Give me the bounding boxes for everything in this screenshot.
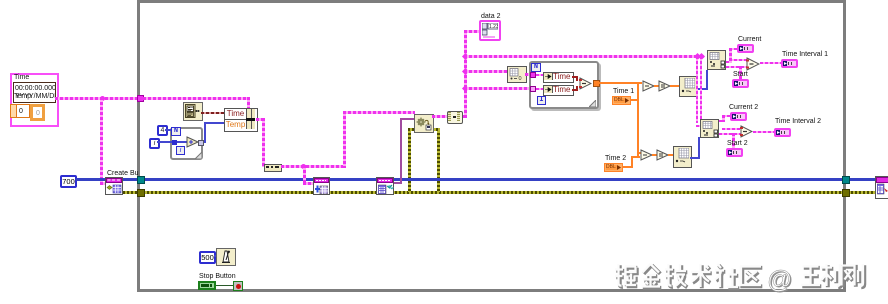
Current indicator — [737, 44, 754, 53]
right edge express VI — [875, 176, 888, 199]
wire into unbundle1 — [536, 74, 543, 76]
Start indicator — [732, 79, 749, 88]
branch y=71 to array-size node — [464, 70, 507, 73]
wire i into loop — [157, 141, 188, 143]
4 constant — [157, 125, 168, 136]
violet wire from VI2 to gear — [394, 182, 402, 184]
Time Interval 1 indicator — [781, 59, 798, 68]
express VI Create Build Table — [105, 177, 123, 195]
svg-text:1.23: 1.23 — [489, 24, 498, 30]
label Stop Button — [199, 273, 236, 281]
pink wire gear to indexer — [432, 115, 447, 118]
blue from node C up to node A — [696, 88, 708, 90]
express VI 2 (Write Meas File) — [376, 177, 394, 195]
vertical up at x=344 — [343, 111, 346, 168]
label Time Interval 1 — [782, 51, 828, 59]
fold corner 2 — [589, 100, 596, 107]
node A (index array group1) — [707, 50, 726, 70]
junction dot — [100, 96, 105, 101]
svg-text:@: @ — [767, 266, 792, 294]
express VI 1 (Build Table) — [313, 177, 330, 195]
label Start 2 — [727, 140, 748, 148]
while loop frame — [137, 0, 846, 292]
wire to condition terminal — [216, 285, 233, 286]
For loop 2 structure — [529, 61, 599, 109]
main pink vertical distribution — [464, 30, 467, 118]
zero box 1 — [16, 104, 30, 118]
i terminal inside — [176, 146, 185, 155]
tunnel teal right — [842, 176, 850, 184]
stub Time1 to vertical — [630, 99, 638, 101]
horizontal to gear node — [343, 111, 415, 114]
vertical B bottom turn — [637, 152, 641, 154]
500 constant — [199, 251, 216, 264]
N terminal — [171, 127, 181, 136]
wire T2 out — [753, 131, 774, 133]
bundle by name node (Time/Temp) — [224, 108, 258, 132]
N terminal 2 — [531, 63, 541, 72]
tunnel square on left border — [172, 140, 177, 145]
branch to triangle upper — [729, 59, 748, 61]
label data 2 — [481, 13, 500, 21]
pink out to vertical — [463, 115, 467, 118]
loop condition terminal — [233, 281, 243, 291]
branch y=88 to For2 tunnel2 — [464, 87, 533, 90]
branch to triangle2 upper — [722, 128, 740, 130]
Time 1 indicator — [612, 96, 631, 105]
node A out2 — [726, 66, 748, 68]
main olive error wire — [123, 191, 875, 194]
Time control (timestamp + cluster) — [10, 73, 59, 127]
wire pink to bundle area — [143, 97, 250, 100]
Start 2 indicator — [726, 148, 743, 157]
blue over olive legs patch — [404, 178, 444, 181]
wire into unbundle2 — [536, 88, 543, 90]
orange out tunnel — [593, 80, 600, 87]
bundle output wire — [256, 118, 265, 121]
gear node (DAQ assistant style) — [414, 114, 434, 133]
blue from node D up to node B — [690, 157, 700, 159]
stop boolean control — [198, 281, 216, 290]
build array small node — [264, 164, 282, 172]
junction dots end of long pink — [694, 53, 701, 60]
label Create Bu — [107, 170, 139, 178]
out tunnel — [198, 140, 204, 146]
increment triangle — [186, 136, 199, 148]
i constant — [149, 138, 160, 149]
Time 2 indicator — [604, 163, 623, 172]
indexer node — [447, 111, 463, 124]
timestamp display box — [13, 82, 56, 103]
node B out1: to Current 2 — [719, 120, 724, 122]
branch y=56 long to right section — [464, 55, 704, 58]
conv triangle 3 — [640, 149, 653, 161]
fold corner — [195, 152, 202, 159]
wire: into create vi — [100, 182, 108, 185]
branch down to express VI 1 — [303, 165, 306, 183]
doubled pink verticals down to node B — [696, 56, 698, 123]
spinner — [10, 104, 17, 118]
tunnel olive right — [842, 189, 850, 197]
wire: branch down to create vi — [100, 97, 103, 183]
comparator triangle group1 — [746, 57, 760, 71]
blue wire into Temp row — [205, 122, 224, 124]
For loop 1 (small structure) — [170, 127, 203, 160]
node B out2 — [719, 133, 741, 135]
orange horizontal from For2 out — [599, 82, 642, 84]
label Start — [733, 71, 748, 79]
dark red timestamp wire — [201, 112, 224, 114]
junction diamonds on vertical — [462, 53, 469, 60]
unbundle Time 2 — [543, 85, 574, 96]
tunnel pink on For2 border 1 — [530, 72, 536, 78]
tunnel (pink) on left border — [137, 95, 144, 102]
tunnel pink on For2 border 2 — [530, 86, 536, 92]
junction dot — [301, 164, 306, 169]
node A out1: to Current — [726, 61, 732, 63]
tunnel olive left — [137, 189, 145, 197]
Get Date/Time In Seconds node — [183, 102, 203, 121]
orange vertical long — [637, 82, 639, 158]
conv triangle 1 — [642, 80, 655, 92]
conv triangle 2 — [658, 80, 671, 92]
wire 4 to N — [165, 129, 171, 131]
wire to junction — [281, 165, 344, 168]
out to For2 tunnel — [525, 73, 533, 76]
data 2 branch — [464, 30, 479, 33]
I terminal 2 — [537, 96, 546, 105]
wire — [654, 85, 659, 87]
label Time — [14, 74, 29, 82]
conv triangle 4 — [656, 149, 669, 161]
Time2 wire right, up — [622, 166, 633, 168]
Time Interval 2 indicator — [774, 128, 791, 137]
label Time Interval 2 — [775, 118, 821, 126]
700 constant — [60, 175, 77, 188]
zero box 2 (focused) — [30, 104, 45, 121]
olive legs from gear node down to main error line — [408, 129, 411, 192]
watermark — [612, 262, 882, 296]
node B (index array group2) — [700, 119, 719, 138]
label Current 2 — [729, 104, 758, 112]
wire T1 out — [760, 62, 781, 64]
tunnel teal left — [137, 176, 145, 184]
wait (ms) metronome icon — [216, 248, 236, 266]
Current 2 indicator — [730, 112, 747, 121]
label Current — [738, 36, 761, 44]
Time 2 label — [605, 155, 626, 163]
node C (num to array) — [679, 76, 698, 97]
data 2 array indicator — [479, 20, 501, 41]
node D (num to array) — [673, 146, 692, 168]
array size node — [507, 66, 527, 83]
comparator triangle group2 — [740, 125, 753, 138]
subtract triangle — [579, 77, 592, 90]
red wires to subtract — [572, 76, 578, 78]
main blue wire — [76, 178, 875, 181]
unbundle Time 1 — [543, 72, 574, 83]
svg-text:0: 0 — [519, 76, 522, 80]
Time 1 label — [613, 88, 634, 96]
wire 500 to wait — [214, 255, 218, 257]
wire: time cluster horizontal — [55, 97, 250, 100]
